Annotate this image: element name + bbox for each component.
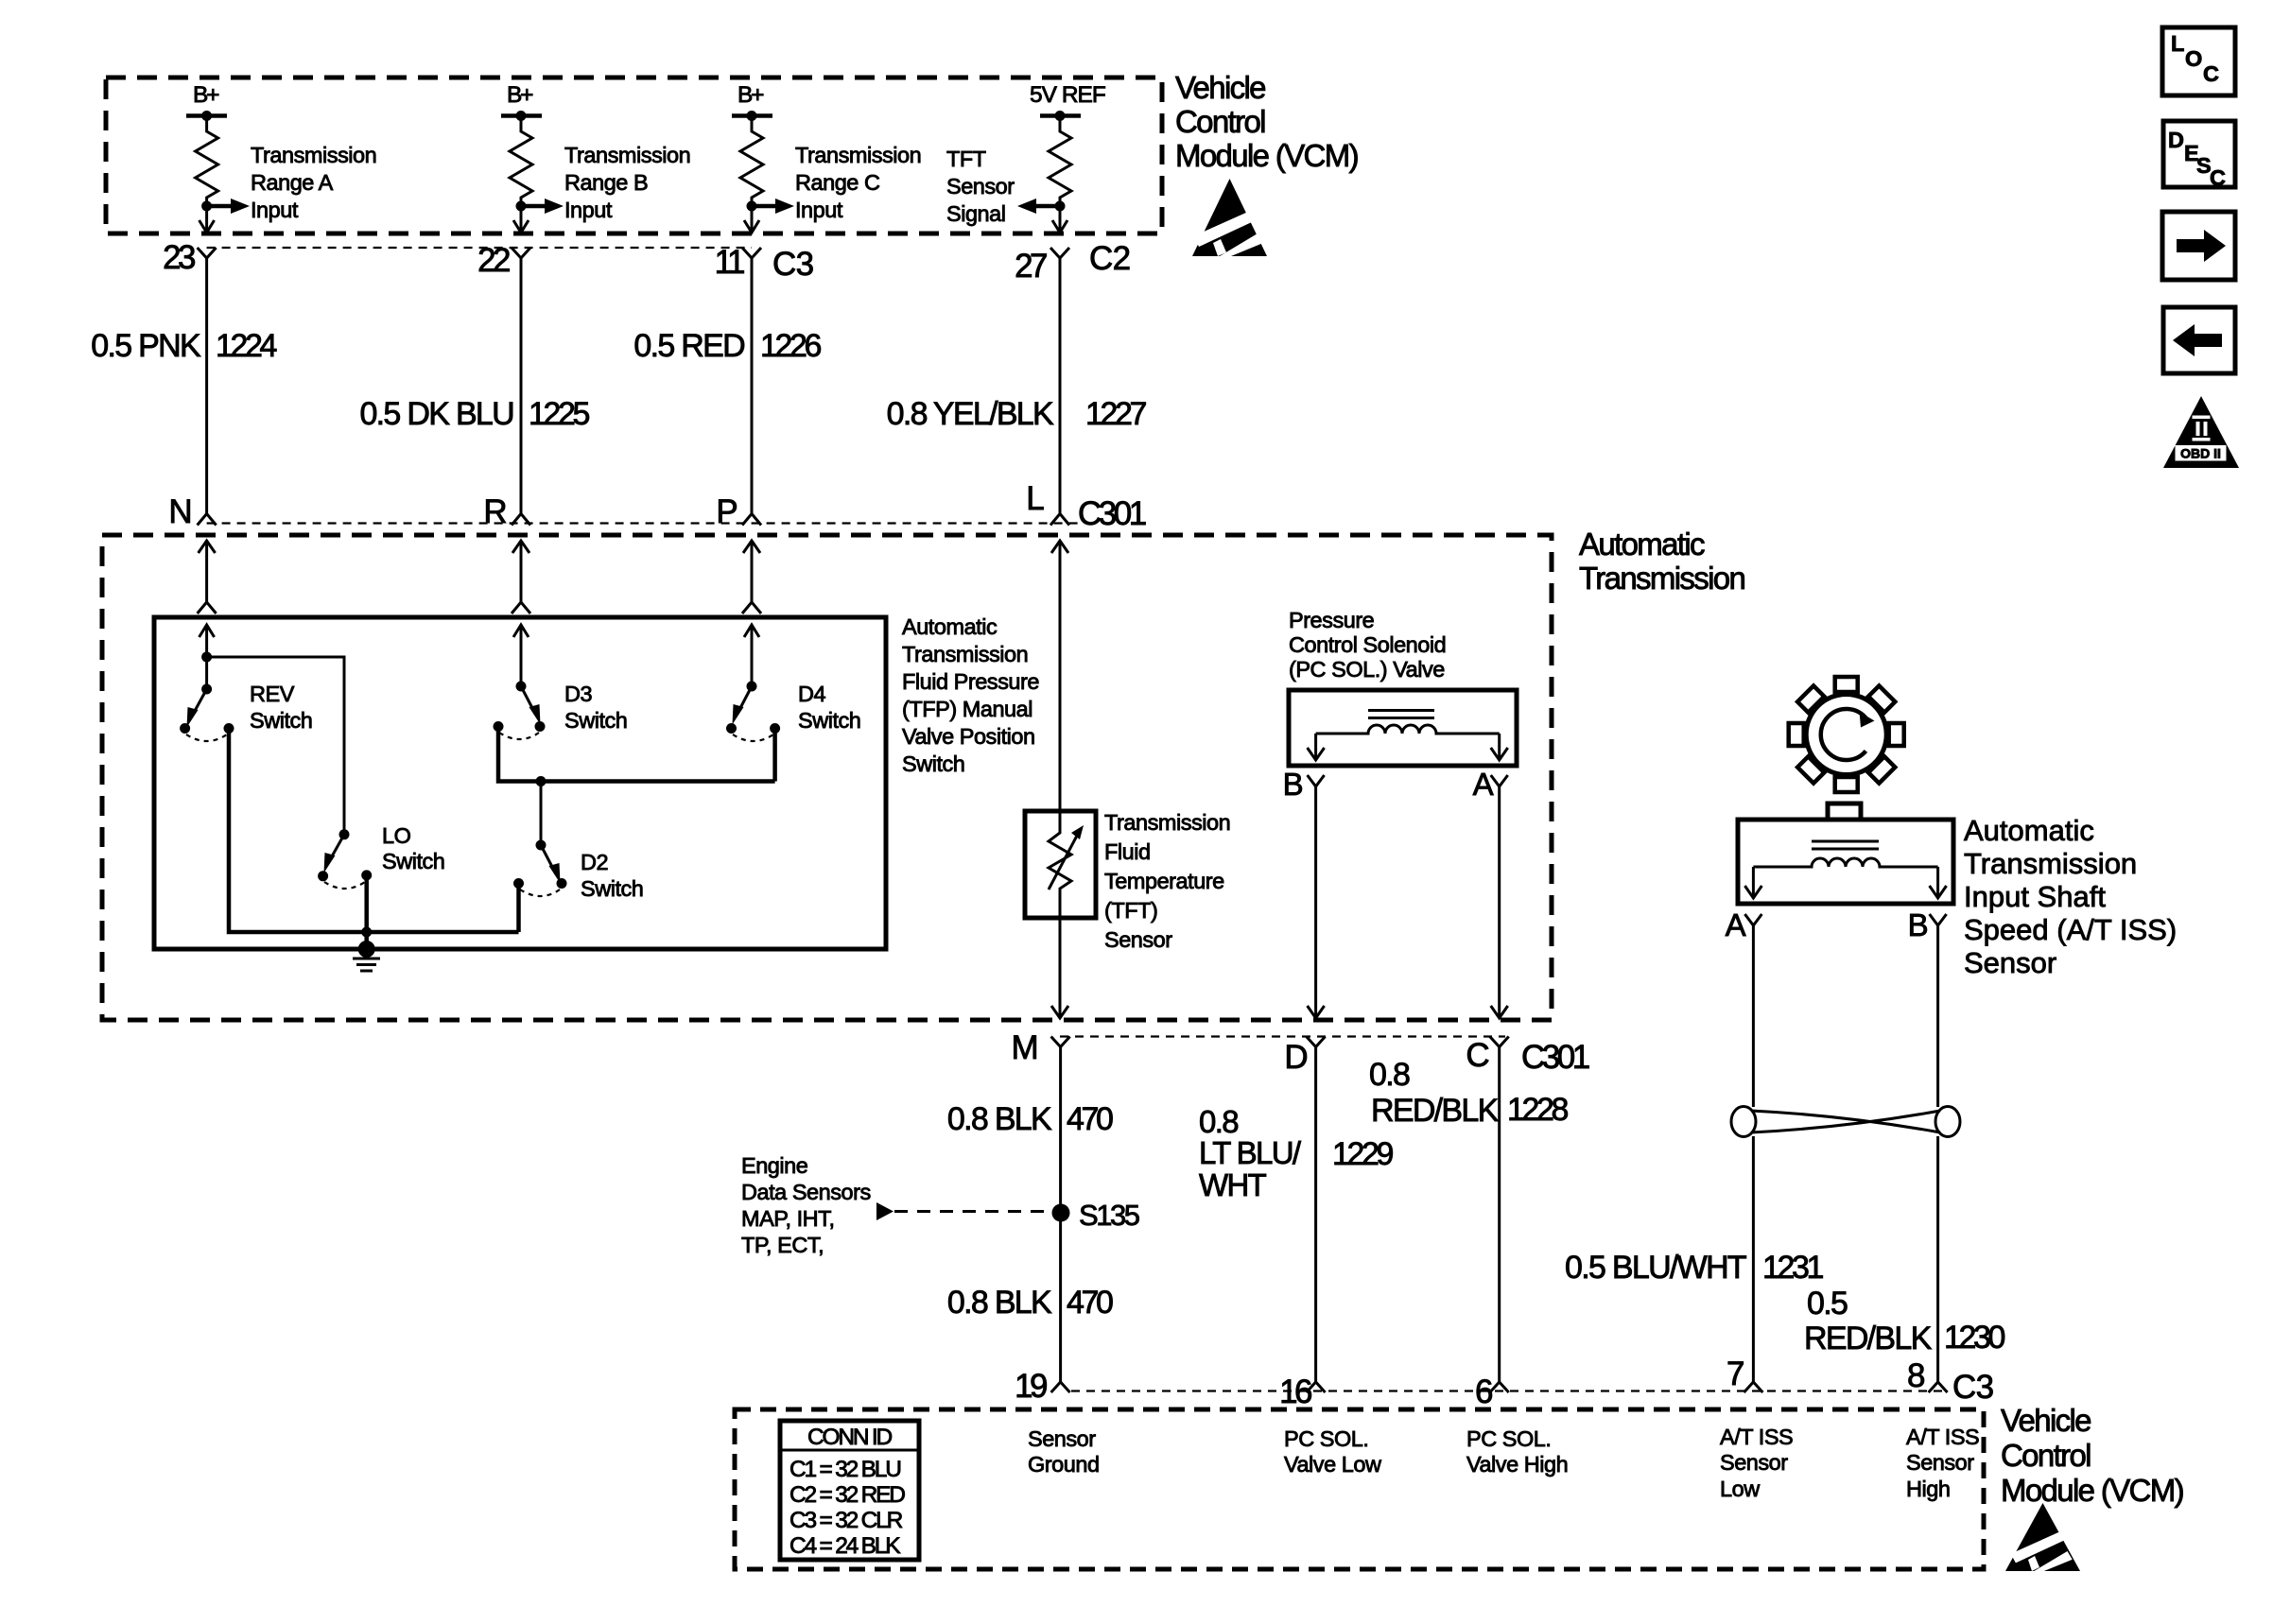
svg-text:B: B [1908, 907, 1928, 942]
svg-text:D4: D4 [798, 682, 826, 706]
svg-text:0.8 YEL/BLK: 0.8 YEL/BLK [887, 396, 1054, 432]
wire D4 contact to bus [772, 729, 777, 782]
wire M exit arrow [1051, 1006, 1068, 1018]
wire 1227 (pin 27 to C301 L) [1059, 258, 1062, 514]
REV switch [180, 682, 312, 741]
SECTION: top VCM [106, 70, 1358, 285]
svg-text:Pressure: Pressure [1289, 608, 1375, 632]
svg-text:0.5 DK BLU: 0.5 DK BLU [359, 396, 513, 432]
ESD sensitive symbol (bottom) [2005, 1503, 2080, 1571]
svg-text:0.5: 0.5 [1807, 1286, 1848, 1322]
TFT sensor box [1025, 811, 1096, 918]
svg-text:B+: B+ [193, 82, 219, 108]
wire PC SOL A down [1498, 786, 1501, 1007]
node junction to LO switch [201, 652, 212, 663]
svg-text:Fluid Pressure: Fluid Pressure [902, 669, 1039, 694]
svg-text:TFT: TFT [946, 147, 986, 171]
svg-text:A/T ISS: A/T ISS [1906, 1425, 1979, 1449]
svg-text:O: O [2185, 46, 2202, 71]
svg-text:0.8: 0.8 [1369, 1057, 1410, 1093]
svg-text:Switch: Switch [902, 752, 964, 776]
svg-text:Module (VCM): Module (VCM) [1175, 138, 1358, 173]
svg-text:RED/BLK: RED/BLK [1371, 1093, 1500, 1129]
svg-text:TP, ECT,: TP, ECT, [741, 1233, 824, 1257]
svg-text:MAP, IHT,: MAP, IHT, [741, 1206, 835, 1231]
svg-text:C: C [2210, 165, 2226, 190]
SECTION: pins and wires [91, 258, 1146, 532]
svg-text:Transmission: Transmission [564, 143, 690, 167]
svg-text:Transmission: Transmission [1964, 847, 2137, 880]
svg-text:Sensor: Sensor [946, 174, 1015, 199]
ESD sensitive symbol (top) [1192, 179, 1267, 256]
wire 1228 (C to pin 6) [1498, 1047, 1501, 1383]
svg-text:C2 = 32 RED: C2 = 32 RED [789, 1482, 905, 1508]
svg-text:Sensor: Sensor [1906, 1450, 1974, 1475]
wire junction to D2 pivot [540, 782, 543, 846]
svg-text:1225: 1225 [529, 396, 590, 432]
svg-text:(PC SOL.) Valve: (PC SOL.) Valve [1289, 657, 1445, 682]
svg-text:D2: D2 [581, 850, 608, 874]
svg-text:0.8 BLK: 0.8 BLK [947, 1101, 1052, 1137]
svg-text:Fluid: Fluid [1104, 839, 1151, 864]
wire 1229 (D to pin 16) [1314, 1047, 1317, 1383]
wire junction to LO pivot [207, 657, 344, 835]
svg-text:B: B [1283, 767, 1303, 802]
svg-text:Transmission: Transmission [902, 642, 1028, 666]
svg-text:7: 7 [1726, 1356, 1744, 1392]
svg-text:Engine: Engine [741, 1153, 808, 1178]
resistor pull-up: Transmission Range C [732, 82, 921, 233]
ISS lead A arrow [1744, 867, 1761, 898]
ground symbol [353, 959, 380, 971]
svg-text:Transmission: Transmission [795, 143, 921, 167]
svg-text:Temperature: Temperature [1104, 869, 1224, 893]
connector line C3/C2 (thin dashed) [207, 247, 752, 249]
svg-text:S: S [2196, 153, 2211, 178]
svg-text:Input: Input [795, 198, 843, 222]
ISS lead B arrow [1930, 867, 1947, 898]
svg-text:0.8 BLK: 0.8 BLK [947, 1285, 1052, 1321]
svg-text:Input Shaft: Input Shaft [1964, 880, 2106, 913]
svg-text:LO: LO [382, 823, 411, 848]
connector symbol pin 11 [742, 248, 761, 258]
svg-text:1224: 1224 [216, 328, 277, 364]
svg-text:Range C: Range C [795, 170, 880, 195]
svg-text:WHT: WHT [1199, 1167, 1267, 1202]
svg-text:C1 = 32 BLU: C1 = 32 BLU [789, 1457, 900, 1482]
A/T ISS sensor box [1738, 820, 1953, 904]
svg-text:(TFT): (TFT) [1104, 898, 1157, 923]
D4 switch [726, 682, 860, 742]
svg-text:Switch: Switch [798, 708, 860, 733]
TFT thermistor element [1049, 811, 1084, 918]
svg-text:1228: 1228 [1507, 1092, 1569, 1128]
svg-text:LT BLU/: LT BLU/ [1199, 1135, 1302, 1170]
wire R entry arrow [512, 541, 530, 613]
VCM (bottom) dashed enclosure [735, 1409, 1984, 1569]
svg-text:0.5 PNK: 0.5 PNK [91, 328, 201, 364]
svg-text:A: A [1726, 907, 1746, 942]
wire L entry arrow (to TFT sensor) [1051, 541, 1068, 811]
svg-text:B+: B+ [737, 82, 764, 108]
svg-text:M: M [1012, 1029, 1038, 1066]
svg-text:Valve High: Valve High [1466, 1452, 1568, 1477]
svg-text:0.8: 0.8 [1199, 1104, 1238, 1139]
OBD II icon [2163, 396, 2239, 468]
D4 switch branch arrow inside box [744, 625, 759, 686]
svg-text:Control: Control [2001, 1438, 2091, 1473]
splice S135 [1052, 1204, 1070, 1222]
svg-text:C301: C301 [1521, 1039, 1589, 1076]
svg-text:Automatic: Automatic [902, 614, 998, 639]
connector symbol pin 27 [1050, 248, 1069, 258]
CONN ID table [780, 1421, 919, 1560]
connector C301 line (thin dashed) [207, 522, 1084, 524]
svg-text:1227: 1227 [1085, 396, 1147, 432]
svg-text:Sensor: Sensor [1028, 1426, 1096, 1451]
engine data sensors stub [876, 1202, 894, 1220]
connector symbol pin 22 [512, 248, 530, 258]
svg-text:Data Sensors: Data Sensors [741, 1180, 871, 1204]
DESC icon [2163, 121, 2235, 190]
svg-text:0.5 RED: 0.5 RED [633, 328, 744, 364]
svg-text:P: P [716, 493, 737, 530]
D3 switch branch arrow inside box [513, 625, 529, 686]
resistor pull-up: TFT Sensor Signal (5V REF) [946, 82, 1105, 233]
VCM (top) dashed enclosure [106, 78, 1162, 233]
svg-text:8: 8 [1907, 1357, 1924, 1394]
svg-text:1229: 1229 [1332, 1136, 1394, 1172]
ISS coil core [1812, 840, 1879, 843]
D3 switch [494, 682, 628, 740]
svg-text:High: High [1906, 1477, 1950, 1501]
svg-text:0.5 BLU/WHT: 0.5 BLU/WHT [1565, 1250, 1746, 1286]
svg-text:Switch: Switch [564, 708, 627, 733]
svg-text:REV: REV [250, 682, 295, 706]
svg-text:D3: D3 [564, 682, 593, 706]
PC SOL coil [1316, 725, 1500, 734]
wire 1226 (pin 11 to C301 P) [751, 258, 754, 514]
wire D2 contact to ground bus [516, 884, 521, 933]
wire 470 (M to S135) [1059, 1047, 1062, 1383]
wire N entry arrow [198, 541, 217, 613]
svg-text:Control Solenoid: Control Solenoid [1289, 632, 1446, 657]
ISS coil [1753, 858, 1937, 867]
svg-text:Range A: Range A [251, 170, 334, 195]
svg-text:L: L [2171, 31, 2184, 56]
svg-text:D: D [1284, 1039, 1308, 1076]
twisted pair symbol [1731, 1107, 1960, 1137]
svg-text:(TFP) Manual: (TFP) Manual [902, 697, 1032, 721]
svg-text:1231: 1231 [1762, 1250, 1824, 1286]
svg-text:Ground: Ground [1028, 1452, 1100, 1477]
svg-text:19: 19 [1015, 1368, 1047, 1405]
svg-text:Switch: Switch [581, 876, 643, 901]
connector symbol pin 23 [198, 248, 217, 258]
wire REV contact to ground bus [229, 729, 367, 933]
wire A exit arrow [1491, 1006, 1508, 1018]
svg-text:Transmission: Transmission [1579, 561, 1744, 596]
svg-text:RED/BLK: RED/BLK [1804, 1321, 1933, 1356]
svg-text:27: 27 [1015, 248, 1047, 285]
ground bus junction to D2 [367, 930, 519, 935]
wire PC SOL B down [1314, 786, 1317, 1007]
svg-text:C4 = 24 BLK: C4 = 24 BLK [789, 1533, 901, 1559]
svg-text:OBD II: OBD II [2180, 446, 2221, 461]
svg-text:B+: B+ [507, 82, 533, 108]
back arrow icon [2163, 307, 2235, 373]
svg-text:N: N [168, 493, 192, 530]
svg-text:Transmission: Transmission [251, 143, 376, 167]
wire ISS B down [1936, 925, 1939, 1107]
connector C3 line (thin dashed) [1071, 1390, 1948, 1391]
resistor pull-up: Transmission Range B [501, 82, 690, 233]
wire LO contact to ground [364, 875, 369, 949]
svg-text:Low: Low [1720, 1477, 1761, 1501]
PC SOL coil core [1368, 709, 1434, 712]
svg-text:Control: Control [1175, 104, 1265, 139]
svg-text:Switch: Switch [382, 849, 444, 873]
svg-text:C2: C2 [1089, 240, 1130, 277]
svg-text:R: R [483, 493, 507, 530]
svg-text:Speed (A/T ISS): Speed (A/T ISS) [1964, 913, 2177, 946]
svg-text:Valve Position: Valve Position [902, 724, 1035, 749]
svg-text:C3: C3 [772, 246, 813, 283]
svg-text:Signal: Signal [946, 201, 1006, 226]
SECTION: transmission box [102, 527, 1744, 1076]
svg-text:470: 470 [1067, 1285, 1113, 1321]
REV switch branch arrow inside box [200, 625, 215, 657]
svg-text:Valve Low: Valve Low [1284, 1452, 1382, 1477]
svg-text:23: 23 [163, 239, 195, 276]
Automatic Transmission dashed enclosure [102, 535, 1552, 1020]
TFP manual valve position switch box [154, 617, 886, 949]
svg-text:PC SOL.: PC SOL. [1284, 1426, 1368, 1451]
svg-text:Sensor: Sensor [1104, 927, 1172, 952]
node D2 bus junction [536, 776, 547, 786]
wire 1224 (pin 23 to C301 N) [205, 258, 208, 514]
svg-text:Vehicle: Vehicle [1175, 70, 1265, 105]
wire B exit arrow [1308, 1006, 1325, 1018]
svg-text:Sensor: Sensor [1964, 946, 2056, 979]
reluctor gear icon [1789, 677, 1904, 792]
svg-text:C3: C3 [1952, 1369, 1993, 1406]
PC SOL lead A arrow [1491, 734, 1508, 760]
wire junction down to REV pivot [205, 657, 208, 689]
svg-text:Automatic: Automatic [1579, 527, 1705, 561]
SECTION: right sensors [1565, 677, 2177, 1382]
svg-text:C: C [2203, 61, 2219, 86]
svg-text:1230: 1230 [1944, 1320, 2005, 1356]
SECTION: bottom VCM [735, 1047, 2183, 1572]
PC SOL lead B arrow [1308, 734, 1325, 760]
wire ISS A down [1752, 925, 1755, 1107]
node ground bus junction [361, 927, 372, 938]
wire 1225 (pin 22 to C301 R) [520, 258, 523, 514]
PC SOL valve box [1289, 690, 1517, 766]
svg-text:Input: Input [251, 198, 299, 222]
svg-text:L: L [1026, 480, 1044, 517]
svg-text:Vehicle: Vehicle [2001, 1403, 2091, 1438]
svg-text:Transmission: Transmission [1104, 810, 1230, 835]
svg-text:C: C [1466, 1037, 1489, 1074]
connector C301 lower line (thin dashed) [1060, 1035, 1505, 1037]
svg-text:Automatic: Automatic [1964, 814, 2094, 847]
svg-text:Input: Input [564, 198, 613, 222]
LO switch [318, 823, 444, 889]
svg-text:Range B: Range B [564, 170, 648, 195]
svg-text:A: A [1473, 767, 1494, 802]
svg-text:C3 = 32 CLR: C3 = 32 CLR [789, 1508, 903, 1533]
wire P entry arrow [742, 541, 761, 613]
svg-text:11: 11 [715, 244, 744, 281]
wire D3 contact to D2/D4 bus [498, 727, 775, 782]
svg-text:D: D [2168, 128, 2184, 152]
svg-text:A/T ISS: A/T ISS [1720, 1425, 1793, 1449]
svg-text:C301: C301 [1078, 495, 1146, 532]
resistor pull-up: Transmission Range A [186, 82, 376, 233]
ground node on box edge [358, 941, 375, 958]
svg-text:Switch: Switch [250, 708, 312, 733]
svg-text:CONN ID: CONN ID [807, 1425, 893, 1450]
forward arrow icon [2162, 212, 2235, 280]
svg-text:470: 470 [1067, 1101, 1113, 1137]
svg-text:PC SOL.: PC SOL. [1466, 1426, 1551, 1451]
svg-text:1226: 1226 [760, 328, 822, 364]
wire TFT to M [1059, 918, 1062, 1007]
svg-text:S135: S135 [1079, 1199, 1139, 1232]
SECTION: icons [2162, 27, 2239, 468]
svg-text:Module (VCM): Module (VCM) [2001, 1473, 2183, 1508]
D2 switch [513, 840, 643, 902]
svg-text:5V REF: 5V REF [1030, 82, 1105, 108]
sensor nub [1828, 803, 1861, 820]
LOC icon [2162, 27, 2235, 95]
svg-text:Sensor: Sensor [1720, 1450, 1788, 1475]
